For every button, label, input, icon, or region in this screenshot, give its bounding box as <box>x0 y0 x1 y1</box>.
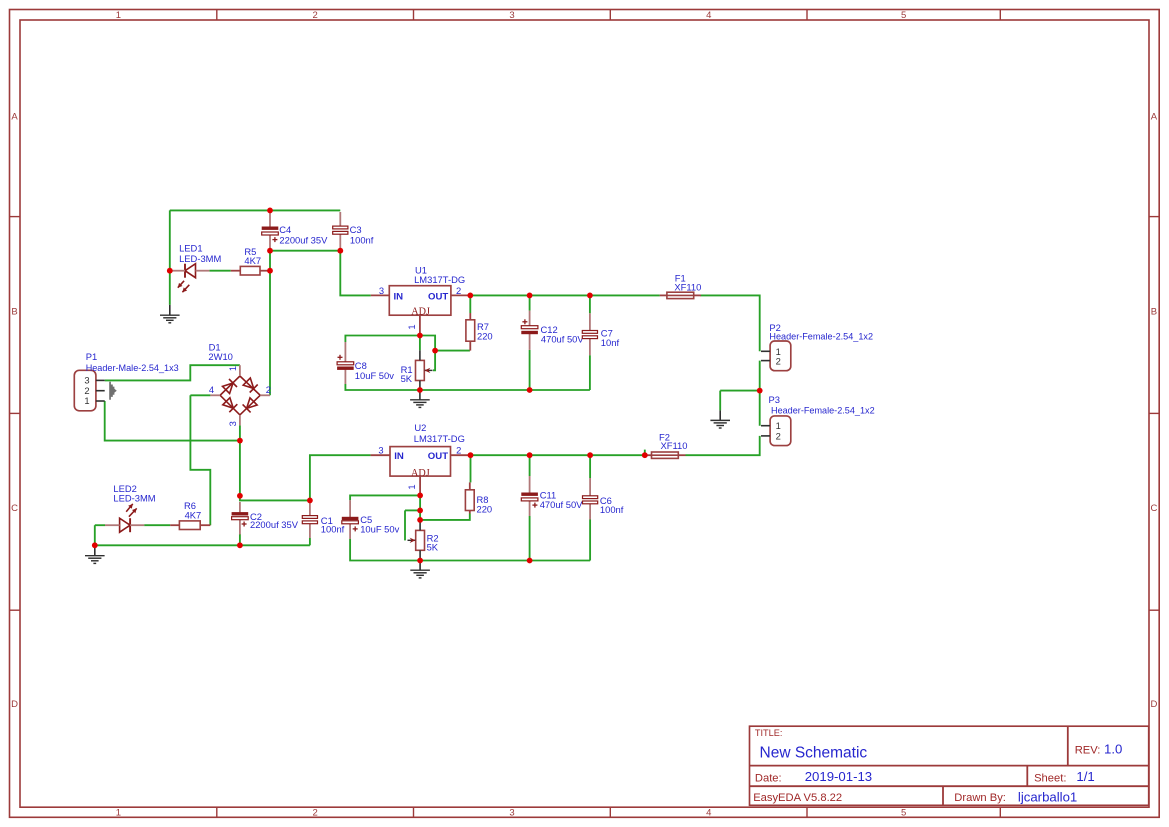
svg-text:2W10: 2W10 <box>208 351 233 362</box>
svg-text:5K: 5K <box>427 541 439 552</box>
C2 labels <box>250 511 299 530</box>
svg-text:3: 3 <box>378 445 383 456</box>
fuse F2 XF110 <box>644 452 685 458</box>
wire LED2 to R6 <box>144 524 170 526</box>
connector P3 Header-Female-2.54_1x2 <box>761 394 875 446</box>
wire to C12 top <box>529 295 531 310</box>
wire C1 node up to U2 IN <box>310 455 371 500</box>
svg-text:P3: P3 <box>769 394 780 405</box>
junction U1 OUT / R7 <box>467 293 473 299</box>
svg-text:2: 2 <box>313 807 318 818</box>
wire R7 bottom to ADJ node <box>435 350 470 352</box>
svg-text:4K7: 4K7 <box>185 509 202 520</box>
svg-text:OUT: OUT <box>428 451 448 462</box>
wire junction to ground <box>720 390 760 392</box>
ground (R2) <box>410 561 430 578</box>
wire LED1 to R5 <box>209 270 230 272</box>
svg-text:ADJ: ADJ <box>411 307 430 318</box>
svg-text:4: 4 <box>209 384 214 395</box>
capacitor C2 2200uf 35V <box>232 502 249 535</box>
wire upper ground rail <box>345 384 590 390</box>
svg-text:4: 4 <box>706 10 711 21</box>
C1 labels <box>321 515 345 535</box>
svg-text:REV:: REV: <box>1075 744 1101 756</box>
ground (P2/P3 junction) <box>710 410 730 428</box>
potentiometer R2 5K <box>408 530 425 550</box>
svg-text:2019-01-13: 2019-01-13 <box>805 769 872 784</box>
svg-text:TITLE:: TITLE: <box>755 728 783 738</box>
R2 leads <box>419 520 421 561</box>
LED1 leads <box>172 270 209 272</box>
capacitor C7 10nf <box>582 313 597 355</box>
D1 labels and pin numbers <box>208 341 271 426</box>
junction C6 top <box>587 452 593 458</box>
svg-text:U2: U2 <box>414 422 426 433</box>
svg-text:P1: P1 <box>86 351 97 362</box>
svg-text:C: C <box>11 503 18 514</box>
svg-text:C: C <box>1150 503 1157 514</box>
junction C7 top <box>587 293 593 299</box>
C4 labels <box>279 224 328 246</box>
svg-text:3: 3 <box>509 807 514 818</box>
wire stub above F2 junction <box>644 450 646 456</box>
svg-text:2: 2 <box>456 285 461 296</box>
junction D1 pin3 / P1 pin1 <box>237 438 243 444</box>
junction R5 / D1 pin2 column <box>267 268 273 274</box>
svg-text:Drawn By:: Drawn By: <box>954 792 1006 804</box>
wire P3 pin2 to F2 <box>686 436 760 455</box>
C12 labels <box>541 324 585 344</box>
capacitor C12 470uf 50V <box>521 311 538 350</box>
svg-text:XF110: XF110 <box>674 282 701 293</box>
wire C4/C3 bottom rail <box>270 250 340 252</box>
junction C4 bottom rail <box>267 248 273 254</box>
svg-text:5K: 5K <box>401 373 413 384</box>
junction R8 bottom <box>417 517 423 523</box>
resistor R7 220 <box>466 313 475 351</box>
voltage regulator U2 LM317T-DG <box>371 422 469 495</box>
ground (LED1) <box>160 305 180 323</box>
svg-text:C3: C3 <box>350 224 362 235</box>
svg-text:A: A <box>1151 111 1158 122</box>
wire ADJ column <box>419 495 421 520</box>
C5 labels <box>360 514 399 534</box>
diode D1 top-left (points to pin1) <box>223 379 238 394</box>
wire ADJ to C8 top <box>345 336 420 343</box>
wire LED2 left stub <box>95 524 105 526</box>
capacitor C5 10uF 50v <box>342 500 359 539</box>
junction R2 bottom / ground <box>417 558 423 564</box>
svg-text:A: A <box>11 111 18 122</box>
junction C11 bottom <box>527 558 533 564</box>
connector P1 Header-Male-2.54_1x3 <box>74 351 178 411</box>
wire to C11 top <box>529 455 531 476</box>
svg-text:1: 1 <box>116 807 121 818</box>
R8 labels <box>477 494 493 514</box>
junction C12 top <box>527 293 533 299</box>
wire D1 pin3 down to C1 node <box>240 425 310 500</box>
capacitor C4 2200uf 35V <box>262 213 279 249</box>
wire U1 OUT rail <box>468 294 659 296</box>
junction U1 ADJ <box>417 333 423 339</box>
junction R1 bottom / ground <box>417 387 423 393</box>
svg-text:470uf 50V: 470uf 50V <box>540 499 583 510</box>
wire P1 pin3 to D1 pin1 <box>105 365 240 380</box>
svg-text:3: 3 <box>227 421 238 426</box>
svg-text:2: 2 <box>313 10 318 21</box>
svg-text:LED-3MM: LED-3MM <box>179 253 221 264</box>
wire D1 pin4 down to R6 <box>190 395 210 525</box>
capacitor C6 100nf <box>583 478 598 520</box>
wire C2 bottom link <box>239 534 241 545</box>
junction C2 bottom <box>237 542 243 548</box>
wire P1 pin1 to lower node <box>105 401 240 441</box>
LED LED1 LED-3MM <box>178 264 196 293</box>
wire D1 pin4 stub link <box>190 394 210 396</box>
R7 labels <box>477 321 493 342</box>
junction U2 OUT / R8 <box>468 452 474 458</box>
svg-text:Sheet:: Sheet: <box>1034 773 1066 785</box>
wire C12 bottom to rail <box>529 350 531 390</box>
svg-text:OUT: OUT <box>428 291 448 302</box>
capacitor C11 470uf 50V <box>521 476 538 516</box>
R2 labels <box>427 533 439 553</box>
LED2 leads <box>105 524 144 526</box>
wire lower-left ground rail <box>95 544 310 546</box>
LED2 labels <box>113 483 155 504</box>
wire top ground rail <box>170 209 340 211</box>
diode D1 top-right (points to pin2) <box>243 378 258 393</box>
svg-text:1: 1 <box>406 324 417 329</box>
svg-text:Header-Female-2.54_1x2: Header-Female-2.54_1x2 <box>771 406 875 416</box>
R6 labels <box>184 500 201 521</box>
svg-text:XF110: XF110 <box>661 440 688 451</box>
potentiometer R1 5K <box>416 360 433 380</box>
svg-text:1/1: 1/1 <box>1076 769 1094 784</box>
wire C6 bottom to rail <box>589 520 591 561</box>
svg-text:LED-3MM: LED-3MM <box>113 493 155 504</box>
junction wiper tap R2 <box>417 508 423 514</box>
junction R7 bottom / wiper <box>432 348 438 354</box>
svg-text:5: 5 <box>901 10 906 21</box>
fuse F1 XF110 <box>660 292 701 298</box>
C11 labels <box>540 489 583 510</box>
R1 leads <box>419 350 421 390</box>
wire C7 bottom to rail <box>589 355 591 390</box>
svg-text:C4: C4 <box>279 224 291 235</box>
svg-text:LM317T-DG: LM317T-DG <box>414 433 465 444</box>
svg-text:100nf: 100nf <box>321 524 345 535</box>
junction P2/P3 ground node <box>757 388 763 394</box>
svg-text:LED1: LED1 <box>179 243 202 254</box>
svg-text:10nf: 10nf <box>601 337 620 348</box>
svg-text:470uf 50V: 470uf 50V <box>541 334 584 345</box>
capacitor C3 100nf <box>333 212 348 249</box>
svg-text:100nf: 100nf <box>350 235 374 246</box>
resistor R6 4K7 <box>170 521 210 530</box>
svg-text:New Schematic: New Schematic <box>760 744 868 761</box>
wire U2 ADJ to C5 top <box>350 495 420 500</box>
C3 labels <box>350 224 374 245</box>
svg-text:D: D <box>1150 699 1157 710</box>
LED LED2 LED-3MM <box>120 504 137 532</box>
svg-text:1: 1 <box>116 10 121 21</box>
svg-text:2: 2 <box>266 384 271 395</box>
wire U1 ADJ to R1 wiper <box>420 336 435 371</box>
diode D1 bottom-right (points to pin3) <box>243 398 258 413</box>
svg-text:IN: IN <box>394 451 404 462</box>
svg-text:2: 2 <box>776 355 781 366</box>
junction C2 top <box>237 493 243 499</box>
voltage regulator U1 LM317T-DG <box>371 265 469 336</box>
svg-text:EasyEDA V5.8.22: EasyEDA V5.8.22 <box>753 792 842 804</box>
junction LED1 / ground column <box>167 268 173 274</box>
wire LED2 to ground rail <box>94 525 96 545</box>
svg-text:B: B <box>11 306 17 317</box>
svg-text:5: 5 <box>901 807 906 818</box>
svg-text:3: 3 <box>379 285 384 296</box>
C7 labels <box>601 328 620 349</box>
C6 labels <box>600 495 624 515</box>
svg-text:4: 4 <box>706 807 711 818</box>
junction C11 top <box>527 452 533 458</box>
ground (lower-left rail) <box>85 545 105 563</box>
svg-text:D: D <box>11 699 18 710</box>
svg-text:10uF 50v: 10uF 50v <box>360 523 399 534</box>
junction C1 top <box>307 498 313 504</box>
connector P2 Header-Female-2.54_1x2 <box>761 322 873 371</box>
R5 labels <box>244 246 261 266</box>
junction C12 bottom <box>527 387 533 393</box>
junction C4 top / ground rail <box>267 208 273 214</box>
junction U2 ADJ <box>417 493 423 499</box>
ground (R1) <box>410 390 430 407</box>
wire wiper drop <box>404 510 406 540</box>
junction F2 left <box>642 452 648 458</box>
svg-text:1: 1 <box>406 484 417 489</box>
F1 labels <box>674 272 701 292</box>
svg-text:ADJ: ADJ <box>411 468 430 479</box>
resistor R5 4K7 <box>231 266 268 275</box>
wire P2 pin2 to P3 pin1 <box>759 361 761 426</box>
wire ADJ down to R1 <box>419 336 421 351</box>
LED1 labels <box>179 243 221 265</box>
svg-text:100nf: 100nf <box>600 504 624 515</box>
svg-text:4K7: 4K7 <box>244 255 261 266</box>
svg-text:Header-Male-2.54_1x3: Header-Male-2.54_1x3 <box>86 363 179 373</box>
capacitor C8 10uF 50v <box>337 342 354 384</box>
svg-text:2: 2 <box>456 445 461 456</box>
svg-text:10uF 50v: 10uF 50v <box>355 370 394 381</box>
svg-text:2200uf 35V: 2200uf 35V <box>279 235 328 246</box>
wire lower ground rail <box>350 539 590 561</box>
wire rail to U1 IN <box>340 251 371 296</box>
svg-text:B: B <box>1151 306 1157 317</box>
wire to R7 top <box>469 295 471 313</box>
svg-text:220: 220 <box>477 504 493 515</box>
wire R8 bottom to ADJ node <box>420 514 470 520</box>
wire to C7 top <box>589 295 591 313</box>
wire wiper tap <box>405 509 420 511</box>
svg-text:ljcarballo1: ljcarballo1 <box>1018 789 1077 804</box>
svg-text:Header-Female-2.54_1x2: Header-Female-2.54_1x2 <box>769 332 873 342</box>
wire ground drop <box>719 391 721 411</box>
C8 labels <box>355 360 394 381</box>
wire to R8 top <box>470 455 472 482</box>
bridge rectifier D1 2W10 <box>210 365 270 425</box>
svg-text:LM317T-DG: LM317T-DG <box>414 274 465 285</box>
resistor R8 220 <box>465 482 474 513</box>
wire LED1 column to ground <box>169 210 171 305</box>
F2 labels <box>659 432 687 452</box>
R1 labels <box>401 364 413 384</box>
svg-text:IN: IN <box>394 291 404 302</box>
svg-text:Date:: Date: <box>755 773 782 785</box>
junction C3 bottom rail <box>337 248 343 254</box>
svg-text:220: 220 <box>477 331 493 342</box>
wire C1 bottom link <box>309 538 311 545</box>
wire to C6 top <box>589 455 591 478</box>
svg-text:3: 3 <box>509 10 514 21</box>
svg-text:1: 1 <box>227 366 238 371</box>
junction ground rail left <box>92 542 98 548</box>
diode D1 bottom-left (points to pin3) <box>223 398 238 413</box>
wire U2 OUT rail <box>468 454 644 456</box>
capacitor C1 100nf <box>302 503 317 538</box>
svg-text:2200uf 35V: 2200uf 35V <box>250 519 299 530</box>
wire C11 bottom to rail <box>529 516 531 561</box>
svg-text:2: 2 <box>776 430 781 441</box>
wire F1 to P2 pin1 <box>700 295 759 351</box>
wire C4+ rail down to D1 pin 2 <box>269 251 271 396</box>
net arrow at P1 pin 2 <box>109 382 117 400</box>
svg-text:1.0: 1.0 <box>1104 742 1122 757</box>
svg-text:1: 1 <box>84 395 89 406</box>
